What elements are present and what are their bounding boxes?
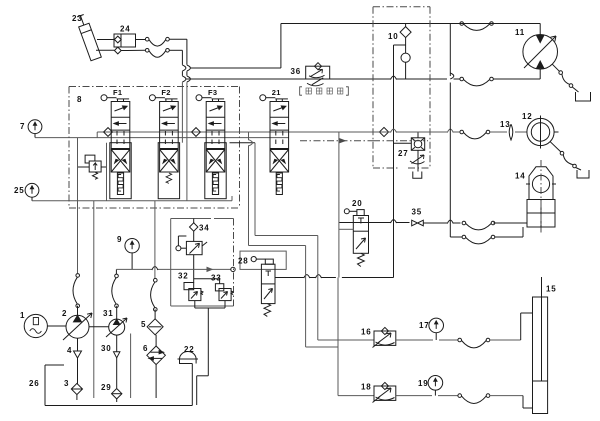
valve 20 spring <box>358 253 365 266</box>
valve 28 spring <box>264 304 271 317</box>
tank symbol <box>572 87 590 101</box>
wire <box>186 78 460 80</box>
hose <box>458 338 490 348</box>
wire <box>394 24 406 278</box>
svg-text:20: 20 <box>352 199 363 208</box>
wire <box>96 40 114 51</box>
svg-text:F3: F3 <box>208 88 217 97</box>
svg-text:6: 6 <box>143 344 148 353</box>
cylinder 15 <box>533 277 557 414</box>
wire <box>193 219 195 223</box>
svg-text:31: 31 <box>103 309 114 318</box>
svg-text:3: 3 <box>64 379 69 388</box>
wire <box>450 227 523 237</box>
directional valve F3 <box>196 88 226 199</box>
wire <box>493 222 526 224</box>
junction hops <box>182 65 190 82</box>
wire <box>130 334 132 399</box>
solenoid valve 20 <box>344 199 368 253</box>
svg-text:8: 8 <box>77 95 82 104</box>
block 14 <box>527 200 555 228</box>
electric motor 1 <box>20 311 47 338</box>
svg-text:25: 25 <box>14 186 25 195</box>
relief valve 32 <box>178 272 203 301</box>
svg-text:19: 19 <box>418 379 429 388</box>
throttle 27 <box>410 155 425 164</box>
junction hop <box>391 220 397 224</box>
junction hops <box>304 275 322 279</box>
node port <box>231 267 235 271</box>
hydraulic motor 11 <box>515 28 558 69</box>
wire <box>493 24 540 35</box>
directional valve F1 <box>101 88 131 199</box>
tank symbol <box>576 168 589 179</box>
svg-text:23: 23 <box>72 14 83 23</box>
svg-text:5: 5 <box>141 320 146 329</box>
svg-text:34: 34 <box>199 224 210 233</box>
svg-text:15: 15 <box>546 285 557 294</box>
filter 5 <box>141 309 163 334</box>
shutoff valve 30 <box>101 335 120 388</box>
tank symbol <box>413 156 422 178</box>
wire <box>394 132 419 156</box>
svg-text:18: 18 <box>361 383 372 392</box>
junction hop <box>152 267 158 271</box>
wire <box>249 132 375 396</box>
junction hop <box>249 140 253 146</box>
breather 22 <box>178 345 199 364</box>
check valve at F3 inlet <box>192 128 201 137</box>
solenoid valve 28 <box>238 257 275 304</box>
hose <box>462 221 495 230</box>
wire <box>116 268 231 270</box>
variable pump 31 <box>103 309 127 337</box>
relief valve <box>85 155 101 179</box>
throttle valve 36 <box>291 63 330 79</box>
wire <box>77 138 79 274</box>
check valve at F1 inlet <box>104 128 113 137</box>
wire <box>396 339 458 341</box>
pressure gauge 17 <box>419 318 444 340</box>
valve 27 <box>398 138 425 158</box>
junction hop <box>391 129 454 133</box>
swivel unit 14 <box>515 167 556 200</box>
rotary joint 12 <box>522 112 559 149</box>
hose <box>552 64 572 87</box>
wire <box>275 277 394 279</box>
svg-text:33: 33 <box>211 274 222 283</box>
filter 3 <box>64 379 83 400</box>
wire <box>115 269 117 319</box>
svg-text:28: 28 <box>238 257 249 266</box>
wire <box>78 143 107 201</box>
svg-text:29: 29 <box>101 383 112 392</box>
hose <box>112 274 118 308</box>
hose <box>462 235 495 244</box>
svg-text:27: 27 <box>398 149 409 158</box>
check valve 10 lower <box>401 53 410 62</box>
wire <box>182 82 187 201</box>
hose <box>460 130 490 139</box>
hose <box>458 394 490 404</box>
hose <box>145 49 169 58</box>
relief valve 33 <box>211 274 233 301</box>
svg-text:10: 10 <box>388 32 399 41</box>
svg-text:4: 4 <box>67 346 72 355</box>
enclosure box (solid+dash-dot) <box>171 219 234 307</box>
main line upper <box>97 132 460 138</box>
cylinder 23 <box>72 14 101 61</box>
hose <box>460 77 493 86</box>
directional valve F2 <box>149 88 179 199</box>
cooler 6 <box>143 335 165 365</box>
wire <box>490 396 533 408</box>
hose <box>460 22 493 31</box>
wire <box>195 301 225 405</box>
svg-text:11: 11 <box>515 28 525 37</box>
hose <box>73 274 79 308</box>
pilot wire <box>339 228 353 230</box>
check valve 24 <box>114 25 136 54</box>
return rail <box>32 196 232 201</box>
filter 29 <box>101 383 122 402</box>
svg-text:36: 36 <box>291 67 302 76</box>
pressure gauge 9 <box>117 235 139 269</box>
wire <box>493 69 540 79</box>
hose <box>145 37 169 46</box>
wire <box>490 131 527 133</box>
svg-text:26: 26 <box>29 379 40 388</box>
svg-text:22: 22 <box>184 345 195 354</box>
shutoff valve 4 <box>67 338 82 384</box>
pressure gauge 25 <box>14 183 39 200</box>
enclosure box 10 (dash-dot) <box>373 7 430 168</box>
hose <box>550 142 576 168</box>
check valve <box>379 127 388 136</box>
svg-text:32: 32 <box>178 272 189 281</box>
flow arrow <box>207 267 212 271</box>
svg-text:9: 9 <box>117 235 122 244</box>
wire <box>93 201 95 398</box>
wire <box>190 24 540 69</box>
enclosure box 8 (dash-dot) <box>69 87 240 209</box>
wire <box>230 143 375 340</box>
svg-text:12: 12 <box>522 112 533 121</box>
wire <box>194 255 220 284</box>
pressure gauge 7 <box>20 120 42 138</box>
svg-text:2: 2 <box>62 309 67 318</box>
svg-text:7: 7 <box>20 122 25 131</box>
svg-text:16: 16 <box>361 328 372 337</box>
svg-text:F1: F1 <box>113 88 122 97</box>
junction hop <box>450 73 454 79</box>
wire <box>169 39 187 65</box>
enclosure box <box>240 251 286 269</box>
wire <box>423 222 460 224</box>
svg-text:30: 30 <box>101 344 112 353</box>
wire <box>154 201 156 279</box>
svg-text:17: 17 <box>419 321 430 330</box>
wire <box>155 365 157 398</box>
svg-text:14: 14 <box>515 172 526 181</box>
svg-text:F2: F2 <box>161 88 170 97</box>
pilot line (dash-dot) <box>300 139 428 143</box>
wire <box>121 40 145 51</box>
junction hop <box>391 76 397 80</box>
svg-text:24: 24 <box>120 25 131 34</box>
wire <box>77 306 79 315</box>
main line <box>35 137 289 139</box>
flow control valve 16 <box>361 327 396 347</box>
caption (CJK) <box>300 87 349 95</box>
throttle pilot <box>307 78 324 86</box>
pilot circle <box>176 236 187 251</box>
center line (dash-dot) <box>540 160 542 233</box>
caption <box>0 0 1 1</box>
directional valve 21 <box>260 88 289 195</box>
variable pump 2 <box>62 309 92 340</box>
svg-text:21: 21 <box>272 88 281 97</box>
svg-text:13: 13 <box>500 120 511 129</box>
svg-text:35: 35 <box>412 208 423 217</box>
hose <box>151 278 158 311</box>
svg-text:1: 1 <box>20 311 25 320</box>
flow control valve 18 <box>361 382 396 402</box>
pressure reducing valve <box>186 241 207 254</box>
shutoff valve 35 <box>412 208 424 226</box>
wire <box>338 132 340 278</box>
reservoir 26 <box>29 364 192 406</box>
wire <box>449 24 451 238</box>
junction hop <box>447 220 453 224</box>
wire <box>396 395 458 397</box>
coupling 13 <box>500 120 513 140</box>
pressure gauge 19 <box>418 376 443 396</box>
wire <box>47 325 66 327</box>
wire <box>89 326 109 328</box>
wire <box>490 313 533 340</box>
check valve 34 <box>190 222 210 241</box>
wire <box>339 222 410 224</box>
check valve 10 upper <box>388 27 411 41</box>
